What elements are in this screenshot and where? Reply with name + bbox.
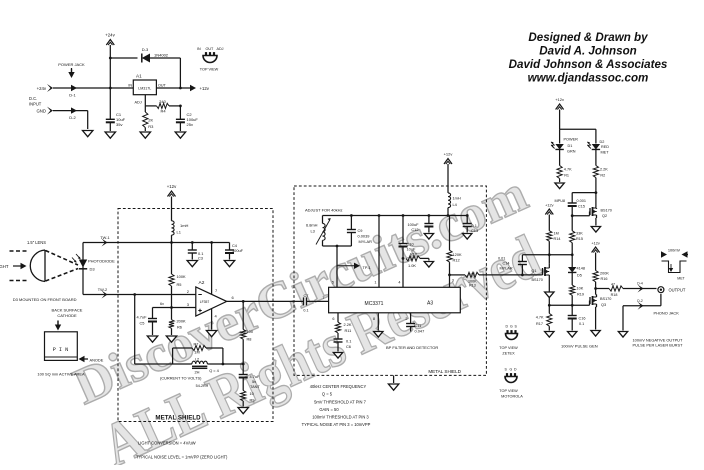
svg-text:D-4: D-4: [637, 282, 643, 286]
svg-text:100mV: 100mV: [668, 248, 681, 253]
svg-text:TW-1: TW-1: [100, 235, 109, 240]
svg-text:IN: IN: [128, 84, 132, 88]
svg-text:MET: MET: [677, 277, 685, 281]
svg-text:G: G: [510, 368, 513, 372]
feedback drop wire: [135, 295, 192, 365]
svg-text:R12: R12: [453, 257, 460, 262]
label 100mV negative output: [633, 338, 684, 348]
svg-text:D-3: D-3: [142, 47, 149, 52]
lens 1.5 inch: [27, 240, 46, 282]
svg-text:C3: C3: [198, 256, 203, 261]
svg-text:TOP VIEW: TOP VIEW: [200, 68, 219, 72]
wire main detector output: [448, 274, 465, 283]
svg-text:R16: R16: [601, 277, 608, 281]
svg-text:A3: A3: [427, 301, 433, 307]
wire diode bypass rail: [110, 58, 180, 88]
diode D5 1N4148: [568, 255, 585, 285]
svg-text:R19: R19: [577, 293, 584, 297]
svg-text:25v: 25v: [187, 122, 193, 127]
svg-text:0.1: 0.1: [579, 322, 584, 326]
label D3 mounted on front board: [13, 297, 77, 302]
svg-text:TP-1: TP-1: [363, 266, 371, 270]
node +12V detector supply: [167, 184, 177, 221]
ground for C2: [175, 132, 185, 138]
capacitor C6 4.7uF tant: [239, 364, 261, 391]
svg-text:ZETEX: ZETEX: [502, 352, 515, 356]
svg-text:240: 240: [159, 99, 166, 104]
svg-text:MYLAR: MYLAR: [359, 239, 373, 244]
svg-text:MET: MET: [601, 151, 610, 155]
resistor R6 200K: [169, 319, 186, 336]
svg-text:L2: L2: [195, 357, 199, 362]
svg-text:5: 5: [332, 281, 334, 285]
photodiode D3: [72, 243, 115, 295]
capacitor C1: [106, 112, 126, 131]
svg-text:INPUT: INPUT: [29, 102, 42, 107]
svg-text:R9: R9: [250, 398, 255, 403]
svg-text:R6: R6: [177, 325, 182, 330]
svg-text:3: 3: [452, 279, 454, 283]
transistor Q2 BS170: [590, 205, 612, 226]
svg-text:+12v: +12v: [591, 242, 599, 246]
svg-text:1mH: 1mH: [180, 223, 189, 228]
ground for D-2 wire: [83, 131, 93, 137]
svg-text:D-2: D-2: [69, 115, 76, 120]
svg-text:MPU8: MPU8: [555, 199, 566, 203]
svg-text:4: 4: [398, 281, 400, 285]
svg-text:OUT: OUT: [206, 47, 215, 51]
wire led rail: [560, 129, 596, 143]
wire regulator output +12v: [156, 85, 209, 91]
svg-text:0.1: 0.1: [303, 309, 308, 313]
svg-text:A1: A1: [136, 74, 142, 79]
svg-text:MOTOROLA: MOTOROLA: [501, 395, 523, 399]
wire tank to pin with TP-1: [332, 246, 371, 287]
shield box 1 metal shield: [118, 209, 273, 422]
svg-text:Q = 4: Q = 4: [209, 368, 219, 373]
svg-text:R1: R1: [564, 174, 569, 178]
ground below shield box 2: [388, 375, 398, 390]
svg-text:120K: 120K: [453, 252, 462, 257]
wire +24v input: [37, 84, 134, 92]
svg-text:6v: 6v: [160, 302, 164, 306]
resistor R17 4.7K: [536, 305, 552, 330]
svg-text:BS170: BS170: [601, 209, 612, 213]
svg-text:0.047: 0.047: [415, 329, 425, 334]
resistor R10 1.0K: [406, 252, 429, 268]
wire pin4 from C10: [398, 257, 404, 287]
svg-text:BS170: BS170: [600, 297, 611, 301]
svg-text:47: 47: [611, 282, 615, 286]
svg-text:TW-2: TW-2: [98, 287, 107, 292]
svg-text:4.7K: 4.7K: [564, 168, 572, 172]
svg-text:0.1: 0.1: [346, 339, 351, 344]
wire Q2 gate: [571, 212, 590, 218]
title text block: [509, 31, 668, 85]
package TO-92 top view LM317L: [197, 47, 224, 72]
svg-text:D-2: D-2: [637, 299, 643, 303]
ground for pin4: [206, 331, 216, 337]
ground for C12: [424, 234, 433, 240]
svg-text:100uF: 100uF: [232, 248, 244, 253]
arrow to output jack: [637, 282, 643, 293]
wire filter top rail: [323, 214, 469, 217]
svg-text:100K: 100K: [177, 274, 186, 279]
resistor R15 33K: [570, 216, 584, 255]
svg-text:6: 6: [332, 317, 334, 321]
svg-text:TANT: TANT: [250, 384, 260, 389]
svg-text:GRN: GRN: [567, 150, 576, 154]
svg-text:7: 7: [322, 296, 324, 300]
ground for R3: [140, 132, 150, 138]
wire ADJ pin: [135, 95, 157, 106]
ground for C13: [463, 234, 472, 240]
svg-text:33K: 33K: [576, 232, 583, 236]
svg-text:G: G: [510, 325, 513, 329]
svg-text:PULSE PER LASER BURST: PULSE PER LASER BURST: [633, 343, 684, 348]
capacitor C14 0.01 mylar: [498, 255, 527, 276]
node +12V R14 supply: [545, 204, 553, 231]
wire +24v rail junction: [109, 57, 112, 120]
wire bias 6v to non-inverting input: [153, 289, 196, 309]
svg-text:POWER: POWER: [564, 138, 579, 142]
wire L3 to C9 bottom: [323, 245, 352, 248]
svg-text:R15: R15: [576, 237, 583, 241]
pulse waveform sketch 100mV: [661, 248, 688, 281]
regulator A1 LM317L: [128, 74, 166, 95]
svg-text:ADJ: ADJ: [135, 101, 142, 105]
svg-text:D1: D1: [568, 144, 573, 148]
svg-text:David Johnson & Associates: David Johnson & Associates: [509, 58, 668, 71]
svg-text:200K: 200K: [600, 272, 609, 276]
ground for R10: [424, 262, 433, 268]
wire gnd input: [36, 107, 87, 129]
capacitor C5 4.7uF: [137, 308, 158, 336]
node +12V filter supply: [444, 152, 453, 193]
capacitor C13 0.1: [463, 216, 478, 233]
svg-text:2.2K: 2.2K: [344, 322, 352, 327]
resistor R16 200K: [593, 271, 609, 295]
svg-text:+12v: +12v: [167, 184, 177, 189]
svg-text:LF357: LF357: [200, 300, 210, 304]
svg-text:C9: C9: [358, 228, 363, 233]
inductor L2 2H: [192, 357, 245, 388]
phono jack output: [658, 287, 686, 293]
capacitor C4 100uF: [225, 243, 244, 260]
svg-text:David A. Johnson: David A. Johnson: [539, 45, 636, 58]
label 100mV pulse gen: [561, 344, 598, 349]
svg-text:100mV PULSE GEN: 100mV PULSE GEN: [561, 344, 598, 349]
svg-text:10K: 10K: [577, 287, 584, 291]
resistor R9 10: [241, 391, 255, 407]
svg-text:C11: C11: [415, 323, 422, 328]
transistor Q1 BS170: [531, 263, 549, 291]
svg-text:R10: R10: [410, 252, 418, 257]
svg-text:Q2: Q2: [602, 214, 607, 218]
svg-text:R7: R7: [194, 341, 199, 346]
label dc input: [29, 96, 42, 107]
ground for C5: [147, 336, 157, 342]
node +12V output supply: [555, 97, 564, 129]
svg-text:Designed & Drawn by: Designed & Drawn by: [528, 31, 648, 44]
svg-text:2.2K: 2.2K: [600, 168, 608, 172]
label current to volts: [160, 376, 202, 381]
wire photodiode anode TW-2 to inverting input: [83, 287, 196, 299]
svg-text:C15: C15: [578, 205, 585, 209]
svg-text:PHOTODIODE: PHOTODIODE: [88, 259, 115, 264]
svg-text:R3: R3: [148, 124, 154, 129]
arrow on Q1 source wire: [545, 292, 554, 305]
svg-text:35v: 35v: [116, 122, 122, 127]
capacitor C16 0.1: [568, 316, 586, 331]
svg-text:0.0039: 0.0039: [358, 234, 370, 239]
watermark line 1 DiscoverCircuits.com: [66, 165, 536, 416]
ground for Q2: [591, 227, 600, 233]
ground for C1: [105, 132, 115, 138]
node +12V R16 supply: [591, 242, 599, 271]
svg-text:METAL SHIELD: METAL SHIELD: [155, 415, 201, 422]
svg-text:2H: 2H: [195, 370, 200, 375]
svg-text:ADJUST FOR 40kHz: ADJUST FOR 40kHz: [305, 208, 343, 213]
svg-text:D.C.: D.C.: [29, 96, 37, 101]
svg-text:1.5" LENS: 1.5" LENS: [27, 240, 46, 245]
ground for jack: [618, 332, 627, 338]
svg-text:5mV THRESHOLD AT PIN 7: 5mV THRESHOLD AT PIN 7: [314, 399, 367, 404]
label adjust for 40kHz: [305, 208, 343, 213]
ground for pin8: [374, 332, 383, 338]
capacitor C2: [176, 106, 198, 131]
svg-text:D3 MOUNTED ON FRONT BOARD: D3 MOUNTED ON FRONT BOARD: [13, 297, 77, 302]
svg-text:RED: RED: [601, 145, 609, 149]
capacitor C7 coupling: [303, 293, 328, 313]
svg-text:+24v: +24v: [37, 86, 47, 91]
ground for C4: [224, 261, 234, 267]
svg-text:0.01: 0.01: [498, 257, 505, 261]
resistor R14 1M: [547, 231, 561, 264]
svg-text:100mV THRESHOLD AT PIN 3: 100mV THRESHOLD AT PIN 3: [312, 415, 369, 420]
svg-text:0.001: 0.001: [577, 199, 587, 203]
diode D-2: [69, 107, 77, 120]
svg-text:MYLAR: MYLAR: [500, 267, 513, 271]
resistor R19 10K: [570, 285, 584, 315]
svg-text:R2: R2: [600, 174, 605, 178]
svg-text:C16: C16: [579, 317, 586, 321]
svg-text:4.7K: 4.7K: [536, 316, 544, 320]
ground for C16: [568, 332, 577, 338]
wire op-amp output: [227, 295, 304, 303]
light rays dashed: [10, 251, 79, 282]
wire pin1 from rail: [374, 216, 379, 288]
svg-text:TYPICAL NOISE AT PIN 3 = 10mVP: TYPICAL NOISE AT PIN 3 = 10mVPP: [302, 422, 371, 427]
wire op-amp pin7 supply: [212, 243, 218, 295]
svg-text:6.8mH: 6.8mH: [306, 223, 318, 228]
svg-text:+12v: +12v: [545, 204, 553, 208]
svg-text:8: 8: [373, 317, 375, 321]
svg-text:GAIN = 50: GAIN = 50: [319, 407, 339, 412]
label phono jack: [654, 311, 680, 316]
ground for R6: [166, 336, 176, 342]
svg-text:A2: A2: [199, 280, 205, 286]
resistor R12 120K: [447, 216, 462, 288]
label power jack: [58, 62, 85, 78]
svg-text:+12v: +12v: [200, 86, 210, 91]
inductor L1 1mH: [172, 221, 189, 243]
svg-text:R11: R11: [345, 328, 352, 333]
svg-text:100: 100: [247, 329, 254, 334]
svg-text:ANODE: ANODE: [90, 358, 104, 363]
capacitor C10 10uF: [399, 216, 416, 259]
svg-text:R4: R4: [160, 109, 166, 114]
notes below filter: [302, 384, 371, 427]
resistor R3 2K: [143, 106, 154, 131]
svg-text:D3: D3: [90, 267, 96, 272]
svg-text:(CURRENT TO VOLTS): (CURRENT TO VOLTS): [160, 376, 202, 381]
ground for R9: [238, 408, 248, 414]
svg-text:40kHz CENTER FREQUENCY: 40kHz CENTER FREQUENCY: [310, 384, 367, 389]
resistor R1 4.7K: [557, 166, 572, 183]
svg-text:100 SQ mm ACTIVE AREA: 100 SQ mm ACTIVE AREA: [37, 372, 85, 377]
svg-text:1mH: 1mH: [453, 196, 461, 201]
svg-text:1N4002: 1N4002: [154, 53, 169, 58]
notes below detector: [136, 441, 228, 460]
package TO-92 top view motorola: [499, 368, 523, 399]
svg-text:L3: L3: [311, 229, 315, 234]
capacitor C12 100uF: [407, 216, 433, 233]
wire TW-1: [100, 235, 109, 247]
svg-text:1: 1: [374, 281, 376, 285]
inductor L3 6.8mH adjustable: [306, 216, 331, 247]
svg-text:OUT: OUT: [158, 84, 167, 88]
svg-text:C7: C7: [304, 293, 309, 298]
resistor R5 100K: [169, 243, 186, 320]
svg-text:200K: 200K: [177, 319, 186, 324]
wire threshold node: [522, 253, 573, 256]
wire pin6 resistor chain: [332, 313, 338, 322]
resistor R2 2.2K: [593, 166, 608, 206]
wire pin2 cap C11: [405, 313, 424, 334]
svg-text:LIGHT CONVERSION = 4V/uW: LIGHT CONVERSION = 4V/uW: [138, 441, 196, 446]
svg-text:4.7uF: 4.7uF: [137, 315, 148, 320]
svg-text:C13: C13: [471, 228, 478, 233]
svg-text:PHONO JACK: PHONO JACK: [654, 311, 680, 316]
svg-text:Q3: Q3: [601, 303, 606, 307]
svg-text:P I N: P I N: [53, 347, 69, 353]
svg-text:54-2RH: 54-2RH: [196, 384, 209, 388]
node +24V supply arrow: [105, 33, 115, 89]
ground for R17: [545, 332, 554, 338]
svg-text:D-1: D-1: [69, 93, 76, 98]
light input arrow: [0, 263, 27, 269]
svg-text:C5: C5: [140, 321, 145, 326]
svg-text:R8: R8: [247, 337, 252, 342]
resistor R13 100K: [465, 272, 542, 287]
resistor R18 47: [609, 282, 657, 297]
svg-text:BP FILTER AND DETECTOR: BP FILTER AND DETECTOR: [386, 345, 438, 350]
ground for R1: [555, 183, 564, 189]
IC A3 MC3371: [329, 287, 461, 313]
svg-text:1M: 1M: [194, 350, 199, 355]
watermark line 2 ALL Rights Reserved: [93, 223, 550, 470]
svg-text:C12: C12: [411, 227, 418, 232]
svg-text:LM317L: LM317L: [138, 87, 151, 91]
inductor L4 1mH: [448, 193, 461, 216]
svg-text:D2: D2: [600, 140, 605, 144]
capacitor C3 0.1: [188, 243, 204, 261]
capacitor C17 0.1: [334, 339, 352, 352]
svg-text:BACK SURFACE: BACK SURFACE: [52, 308, 83, 313]
svg-text:TOP VIEW: TOP VIEW: [499, 346, 518, 350]
svg-text:GND: GND: [36, 108, 46, 113]
svg-text:2K: 2K: [148, 118, 153, 123]
resistor R11 2.2K: [335, 322, 352, 339]
label bp filter and detector: [386, 345, 438, 350]
diode D-1: [69, 85, 77, 98]
svg-text:R5: R5: [177, 282, 182, 287]
resistor R7 1M feedback: [173, 341, 223, 364]
svg-text:C6: C6: [346, 344, 351, 349]
svg-text:www.djandassoc.com: www.djandassoc.com: [528, 72, 649, 85]
svg-text:+12v: +12v: [444, 152, 453, 157]
capacitor C15 0.001 branch: [555, 191, 598, 215]
svg-text:OUTPUT: OUTPUT: [669, 288, 686, 293]
svg-text:BS170: BS170: [532, 278, 543, 282]
pin photodiode package drawing: [37, 308, 103, 377]
svg-text:R17: R17: [536, 322, 543, 326]
ground for C17: [333, 353, 342, 359]
svg-text:ADJ: ADJ: [217, 47, 224, 51]
wire output node: [594, 287, 609, 290]
svg-text:LIGHT: LIGHT: [0, 264, 9, 269]
svg-text:+12v: +12v: [555, 97, 564, 102]
diode D-3 1N4002: [142, 47, 169, 63]
wire pin8 to ground: [373, 313, 378, 331]
svg-text:MC3371: MC3371: [365, 301, 384, 307]
svg-text:METAL SHIELD: METAL SHIELD: [428, 369, 461, 374]
svg-text:R14: R14: [554, 237, 561, 241]
svg-text:TOP VIEW: TOP VIEW: [499, 389, 518, 393]
capacitor C9 0.0039 mylar: [347, 216, 372, 247]
LED D2 red: [587, 140, 609, 166]
svg-text:1M: 1M: [554, 232, 559, 236]
svg-text:4148: 4148: [577, 267, 585, 271]
wire +12v rail to photodiode cathode: [83, 241, 230, 244]
svg-text:POWER JACK: POWER JACK: [58, 62, 85, 67]
resistor R8 100: [241, 301, 254, 364]
ground for C3: [187, 261, 197, 267]
shield box 2 metal shield: [294, 186, 486, 375]
svg-text:D5: D5: [577, 274, 582, 278]
wire op-amp pin4 to ground: [212, 309, 218, 330]
svg-text:2: 2: [405, 317, 407, 321]
svg-text:CATHODE: CATHODE: [57, 313, 77, 318]
resistor R4 240: [157, 99, 182, 114]
package TO-92 top view zetex: [499, 325, 518, 356]
svg-text:L1: L1: [177, 230, 182, 235]
svg-text:1.0K: 1.0K: [408, 263, 416, 268]
wire jack ground return: [623, 294, 661, 331]
svg-text:R18: R18: [611, 293, 618, 297]
svg-text:+24v: +24v: [105, 33, 115, 38]
svg-text:IN: IN: [197, 47, 201, 51]
svg-text:Q = 5: Q = 5: [322, 392, 333, 397]
svg-text:R13: R13: [469, 283, 476, 287]
transistor Q3 BS170: [590, 295, 612, 330]
svg-text:TYPICAL NOISE LEVEL = 1mVPP (Z: TYPICAL NOISE LEVEL = 1mVPP (ZERO LIGHT): [136, 455, 228, 460]
ground for Q3: [591, 331, 600, 337]
LED D1 power green: [551, 138, 578, 166]
op-amp A2 LF357: [196, 280, 227, 316]
svg-text:C14: C14: [503, 262, 510, 266]
